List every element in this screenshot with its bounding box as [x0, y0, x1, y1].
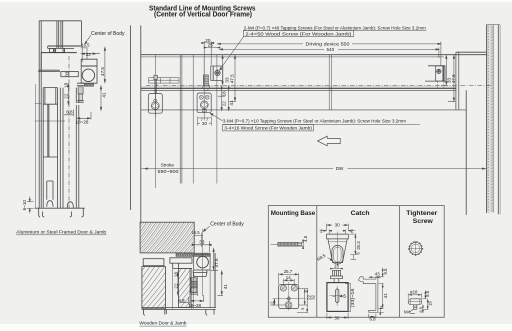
dim 47.5 line — [104, 47, 106, 84]
svg-text:540: 540 — [327, 47, 335, 52]
dim 33 right end — [441, 55, 447, 86]
svg-text:Mounting Base: Mounting Base — [271, 210, 316, 217]
svg-text:30: 30 — [202, 121, 208, 126]
jamb center dash-dot — [68, 56, 70, 209]
jamb outer frame left verticals — [39, 21, 41, 208]
catch assembly on door top — [77, 83, 84, 85]
dim 41 line — [100, 85, 102, 111]
svg-text:16.5: 16.5 — [191, 230, 200, 235]
dim 43 — [369, 277, 382, 278]
svg-text:33: 33 — [199, 240, 205, 245]
dim 18~28 (wood) — [190, 295, 203, 302]
wall back line — [492, 25, 494, 213]
catch top dims — [320, 224, 357, 261]
svg-text:22: 22 — [222, 101, 227, 107]
svg-text:Tightener: Tightener — [406, 210, 437, 217]
floor corner cut marks — [39, 208, 84, 217]
door top rail — [43, 88, 57, 105]
dim 6.8 (wood) — [180, 297, 188, 304]
svg-text:18: 18 — [63, 82, 68, 88]
center line through body (wood) — [202, 229, 204, 296]
glass panes (4 lines) — [57, 21, 63, 48]
frame rail piece B — [170, 258, 192, 263]
door bottom rail groove — [47, 181, 53, 200]
right bracket hidden lines — [437, 82, 444, 89]
tightener screw top view — [408, 241, 423, 256]
vertical pair mid-left — [180, 55, 182, 184]
svg-text:47.5: 47.5 — [230, 74, 235, 83]
mid hole — [288, 298, 290, 300]
leader 3-M4 note — [210, 113, 222, 121]
neck — [334, 279, 339, 283]
mounting base side view (serrated bar) — [271, 240, 305, 249]
svg-text:4.5: 4.5 — [340, 294, 347, 299]
mounting base front view — [273, 282, 306, 311]
dim 18/22 (wood) — [177, 272, 179, 296]
dim 8.5 — [423, 290, 427, 298]
standard line of mounting screws — [141, 54, 487, 56]
note 3-4x16 box — [222, 125, 313, 131]
pocket inner wall line — [141, 109, 466, 111]
closer body circle — [82, 69, 94, 81]
svg-text:47.5: 47.5 — [214, 258, 219, 267]
note 2-4x50 box — [243, 30, 353, 36]
dim 4.5 bar — [297, 240, 304, 249]
jamb side strip hatched (wood) — [179, 268, 191, 307]
frame rail piece A — [143, 259, 164, 266]
svg-text:ø18: ø18 — [410, 290, 418, 295]
leader 2-4x50 note — [220, 37, 244, 70]
svg-text:3-M4 (P=0.7) ×10 Tapping Screw: 3-M4 (P=0.7) ×10 Tapping Screws (For Ste… — [223, 119, 406, 124]
dim 22/18 line — [68, 83, 70, 105]
center line — [328, 232, 347, 267]
svg-text:6.8: 6.8 — [178, 298, 185, 303]
svg-text:20.3: 20.3 — [356, 241, 361, 250]
dim 18-28 line — [76, 112, 91, 120]
wood grain hatch jamb — [118, 222, 224, 253]
svg-text:25: 25 — [208, 43, 214, 48]
svg-text:2-4×50 Wood Screw (For Wooden: 2-4×50 Wood Screw (For Wooden Jamb) — [245, 31, 352, 36]
svg-text:DW: DW — [336, 166, 344, 171]
wall hatch strip — [487, 25, 493, 213]
mounting base 1 — [148, 94, 162, 114]
wooden label underline — [139, 325, 186, 327]
dim 47.5 left — [230, 55, 237, 102]
mounting base dims — [273, 273, 309, 313]
closer body housing — [81, 59, 97, 83]
svg-text:41: 41 — [229, 100, 234, 106]
DW / stroke dimension line — [141, 168, 486, 170]
svg-text:4.5: 4.5 — [303, 235, 308, 242]
dim 33 (wood) — [192, 241, 211, 252]
svg-text:41: 41 — [223, 284, 228, 290]
dim 22/32 right — [297, 289, 308, 313]
panel divider 1 — [316, 206, 318, 318]
svg-text:M4: M4 — [404, 309, 411, 314]
svg-text:22: 22 — [173, 283, 178, 289]
pocket verticals (wood) — [173, 253, 216, 309]
dim 7/7 and 30 under base2 — [197, 117, 211, 126]
dim 16.5 ticks — [81, 46, 88, 62]
dim 41 (wood) — [218, 270, 224, 295]
door leaf section lines — [141, 86, 456, 88]
svg-text:18~28: 18~28 — [76, 119, 89, 124]
closer body circle (wood) — [197, 256, 209, 268]
label underline — [16, 234, 106, 236]
left bracket catch plan — [211, 66, 223, 80]
vertical frame line B (jamb face) — [140, 25, 142, 222]
header extrusion web — [48, 45, 82, 47]
svg-text:5: 5 — [300, 308, 305, 310]
svg-text:14: 14 — [286, 275, 291, 280]
dim 6.8 ticks — [64, 109, 73, 116]
dim 13 — [330, 268, 342, 269]
svg-text:15: 15 — [427, 301, 432, 306]
svg-text:30: 30 — [335, 315, 340, 320]
top edge right section — [456, 51, 487, 53]
svg-text:18: 18 — [222, 91, 227, 97]
dim 2 left — [320, 230, 332, 235]
dim 41 — [379, 284, 384, 309]
svg-text:22: 22 — [63, 93, 68, 99]
right end bracket — [425, 66, 445, 81]
catch side view — [358, 277, 378, 313]
note 3-M4 underline — [223, 124, 420, 126]
svg-text:12: 12 — [270, 301, 275, 306]
svg-text:Center of Body: Center of Body — [210, 222, 244, 228]
bottom cut marks (wood) — [144, 309, 215, 315]
knob cap — [408, 299, 422, 305]
hollow arrow — [318, 136, 341, 146]
svg-text:25.7: 25.7 — [284, 269, 293, 274]
break line — [35, 120, 65, 122]
dim 540 — [220, 48, 439, 59]
pocket box with rotated 33 — [61, 72, 78, 77]
svg-text:(33)~16: (33)~16 — [350, 288, 355, 308]
svg-text:Aluminium or Steel Framed Door: Aluminium or Steel Framed Door & Jamb — [16, 229, 106, 235]
glass holder block — [54, 48, 64, 52]
wooden jamb block — [140, 222, 194, 253]
tightener screw side view — [408, 290, 429, 313]
stadium hole outer — [332, 245, 343, 264]
outer wall line 2 — [499, 25, 501, 214]
jamb right vertical — [80, 21, 82, 46]
svg-text:16.5: 16.5 — [81, 42, 90, 47]
wall top edge — [486, 24, 500, 26]
svg-text:Screw: Screw — [413, 218, 434, 225]
center lines — [273, 282, 306, 311]
leader M4 — [410, 309, 415, 313]
extrusion main web line — [41, 52, 77, 54]
tightener screw under rail — [203, 75, 208, 86]
svg-text:18: 18 — [173, 272, 178, 278]
floor guide bump left — [47, 201, 53, 207]
dim o18 — [408, 293, 422, 299]
dim 2 right — [343, 230, 355, 235]
extrusion bottom flange — [39, 70, 60, 71]
vertical line x193 — [192, 55, 194, 184]
svg-text:47.5: 47.5 — [100, 67, 105, 76]
svg-text:6.8: 6.8 — [66, 109, 73, 114]
left drawing dimensions — [27, 35, 106, 213]
outer cover line — [35, 84, 41, 208]
dim 15 — [423, 299, 429, 310]
svg-text:41: 41 — [383, 293, 388, 298]
left bracket screw — [215, 70, 220, 75]
outer wall line — [497, 25, 499, 214]
slot — [335, 289, 339, 303]
knurled mounting strip — [176, 253, 210, 256]
vertical frame line A — [130, 25, 132, 210]
catch top view — [327, 232, 349, 267]
clamp under body — [193, 270, 207, 276]
svg-text:32: 32 — [311, 294, 316, 299]
wall inner line — [141, 56, 444, 58]
extrusion left wall — [40, 53, 42, 71]
rail internal bar left — [149, 78, 179, 84]
door end stile pair — [456, 52, 459, 110]
svg-text:Stroke: Stroke — [161, 163, 175, 168]
panel divider 2 — [399, 206, 401, 318]
tightener screw (wood view) — [191, 278, 197, 282]
svg-text:8.5: 8.5 — [425, 290, 430, 297]
dim 6 — [351, 255, 357, 260]
svg-text:Center of Body: Center of Body — [91, 31, 125, 37]
dim 25 — [204, 47, 220, 48]
svg-text:33: 33 — [65, 71, 70, 77]
note 2-M4 underline — [244, 29, 426, 31]
svg-text:3-4×16 Wood Screw (For Wooden: 3-4×16 Wood Screw (For Wooden Jamb) — [224, 126, 312, 131]
mounting base 2 — [197, 93, 211, 113]
jamb header top line — [39, 20, 81, 22]
svg-text:590~900: 590~900 — [158, 169, 180, 174]
dim driving device 550 — [218, 42, 441, 66]
panel frame — [268, 206, 444, 318]
catch side dims — [369, 268, 384, 318]
vertical center line base1 — [155, 55, 157, 188]
svg-text:9.5: 9.5 — [383, 268, 388, 275]
door bottom lines (wood) — [142, 308, 216, 310]
bottom cam — [285, 302, 292, 309]
vertical pair mid-span — [329, 55, 331, 110]
dim 14 — [283, 279, 294, 286]
closer body housing (wood) — [194, 255, 210, 270]
svg-text:Catch: Catch — [351, 210, 370, 217]
svg-text:6.5: 6.5 — [418, 306, 423, 312]
vertical line through left bracket — [216, 55, 218, 184]
leader center of body — [85, 35, 91, 43]
catch front view — [327, 270, 348, 311]
extrusion step box — [50, 48, 54, 52]
mounting screw bolt at base1 — [154, 75, 157, 79]
dim 47.5 right end — [448, 55, 455, 102]
dim 6.8 side — [369, 314, 376, 318]
svg-text:43: 43 — [375, 272, 380, 277]
svg-text:18~28: 18~28 — [188, 303, 201, 308]
door leaf verticals — [43, 88, 57, 208]
svg-text:Wooden Door & Jamb: Wooden Door & Jamb — [139, 321, 186, 327]
top tab — [333, 270, 341, 276]
catch (wood view) — [191, 288, 197, 292]
frame edge vertical right — [465, 90, 467, 215]
svg-text:6.8: 6.8 — [370, 316, 377, 321]
wooden drawing dims — [177, 226, 223, 303]
stem — [414, 305, 417, 310]
knurl strip under body — [84, 83, 93, 86]
dim 20.3 — [350, 234, 357, 255]
catch front dims — [327, 268, 351, 319]
svg-text:2-M4 (P=0.7) ×40 Tapping Screw: 2-M4 (P=0.7) ×40 Tapping Screws (For Ste… — [244, 25, 426, 30]
dim (33)-16 — [345, 284, 351, 312]
door glass center lines — [43, 104, 57, 157]
svg-text:33: 33 — [86, 52, 92, 57]
dim 20 — [202, 41, 214, 74]
dim 25.7 — [279, 273, 299, 285]
body — [327, 283, 348, 312]
dim 6-10 — [27, 197, 34, 214]
svg-text:13: 13 — [334, 264, 339, 269]
dim 6.5 — [422, 305, 423, 314]
dim 2 side — [379, 308, 384, 314]
screw top-left — [280, 285, 286, 291]
door leaf hatched (wood) — [142, 267, 166, 309]
svg-text:30: 30 — [335, 223, 340, 228]
dim 33 line — [81, 53, 100, 55]
svg-text:41: 41 — [101, 92, 106, 98]
svg-text:47.5: 47.5 — [451, 74, 456, 83]
stadium hole inner — [334, 247, 341, 262]
floor lines — [35, 207, 85, 209]
track center dash-dot — [146, 84, 491, 86]
floor guide bump right — [67, 202, 73, 208]
leader center of body (wood) — [203, 226, 209, 231]
dim 16.5 (wood) — [194, 233, 202, 247]
dim 12 left — [273, 299, 287, 305]
svg-text:(Center of Vertical Door Frame: (Center of Vertical Door Frame) — [154, 10, 253, 19]
right bracket screw — [437, 69, 441, 73]
svg-text:6~10: 6~10 — [22, 200, 27, 211]
leader R8.5 — [328, 258, 333, 261]
dim 9.5 — [379, 268, 384, 277]
dim 30 bottom — [327, 313, 348, 319]
wall face line — [485, 25, 487, 213]
main drawing dimensions — [141, 30, 486, 169]
dim 4.5 slot leader — [333, 296, 344, 298]
dim 18/22 left — [218, 85, 225, 111]
svg-text:Driving device 550: Driving device 550 — [306, 41, 351, 46]
dim 30 top — [326, 224, 348, 231]
dim 33 left (rotated) — [222, 55, 224, 86]
jamb pocket verticals right — [60, 59, 81, 208]
dim 47.5 (wood) — [211, 248, 218, 270]
screw top-right — [291, 285, 297, 291]
dim 41 left — [228, 85, 230, 111]
